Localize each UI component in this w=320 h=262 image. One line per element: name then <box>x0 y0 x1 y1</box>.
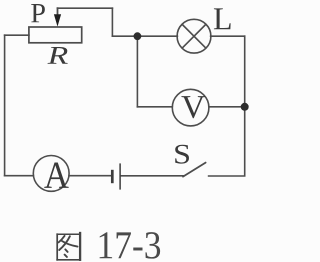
wire: lamp row left segment <box>112 35 177 37</box>
resistor R (rheostat body) <box>29 27 82 43</box>
wire: slider stem <box>57 8 59 16</box>
voltmeter V (circle) <box>172 89 209 126</box>
wire: voltmeter row left segment <box>137 106 172 108</box>
label R (rheostat) <box>48 47 68 64</box>
ammeter letter A <box>44 162 68 187</box>
wire: left vertical side <box>4 35 6 176</box>
caption: figure number 17-3 <box>100 232 112 258</box>
wire: voltmeter row right segment <box>209 106 245 108</box>
label L (lamp) <box>214 8 231 29</box>
label P (slider) <box>31 4 45 22</box>
wire: bottom row switch to right corner <box>209 175 245 177</box>
wire: bottom row left of ammeter <box>5 175 34 177</box>
node: junction dot left (lamp/voltmeter tap) <box>134 32 142 40</box>
wire: bottom row ammeter to battery <box>69 175 111 177</box>
node: junction dot right (voltmeter/right side) <box>241 103 249 111</box>
switch S lever <box>183 163 206 177</box>
battery cell: negative short thick plate <box>111 170 114 183</box>
wire: bottom row battery to switch <box>121 175 183 177</box>
slider arrow P (arrowhead) <box>54 14 61 26</box>
wire: top wire from slider <box>58 7 113 9</box>
ammeter A (circle) <box>33 156 69 192</box>
caption: 图 glyph (drawn) <box>57 233 80 260</box>
wire: top right drop <box>111 8 113 36</box>
wire: lamp row right segment <box>211 35 245 37</box>
wire: right vertical side <box>244 36 246 176</box>
wire: voltmeter branch vertical <box>136 36 138 107</box>
label S (switch) <box>175 145 189 164</box>
wire: rheostat left lead <box>5 34 29 36</box>
lamp L (circle with X) <box>177 19 211 53</box>
battery cell: positive long thin plate <box>119 163 121 189</box>
voltmeter letter V <box>181 96 205 118</box>
